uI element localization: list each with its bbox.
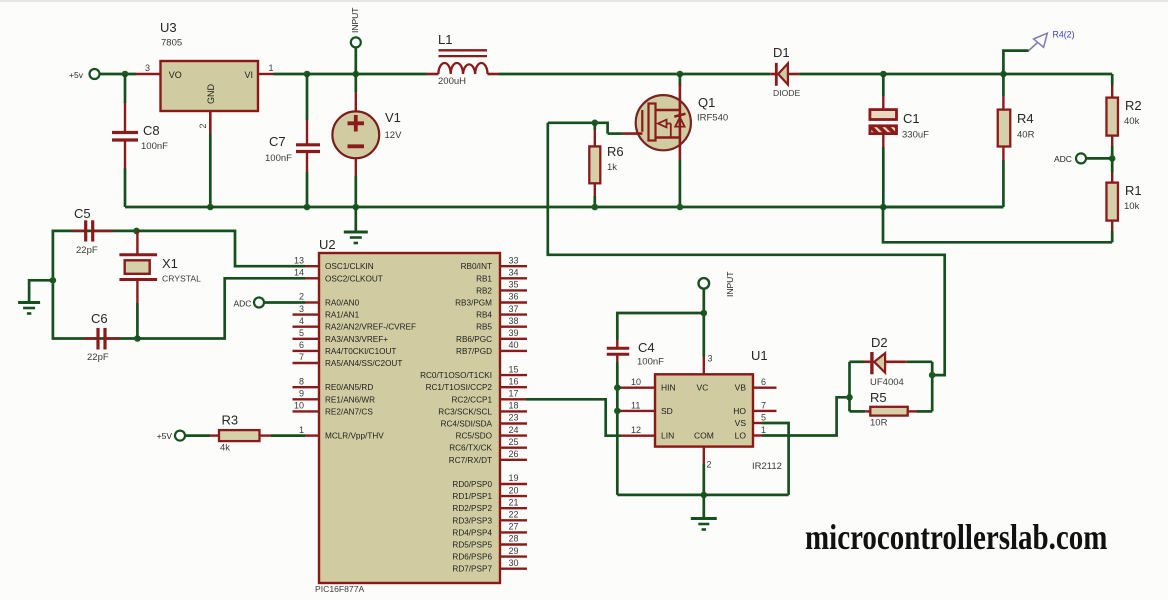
svg-text:COM: COM: [694, 431, 714, 441]
svg-text:1k: 1k: [607, 162, 617, 173]
svg-text:21: 21: [509, 497, 519, 507]
svg-text:U3: U3: [160, 20, 177, 35]
svg-text:RB6/PGC: RB6/PGC: [456, 335, 492, 344]
svg-text:40: 40: [509, 340, 519, 350]
svg-text:14: 14: [294, 268, 304, 278]
svg-text:RB7/PGD: RB7/PGD: [456, 347, 492, 356]
svg-text:PIC16F877A: PIC16F877A: [315, 584, 364, 594]
svg-text:33: 33: [509, 255, 519, 265]
svg-text:15: 15: [509, 364, 519, 374]
svg-text:18: 18: [509, 401, 519, 411]
svg-text:12: 12: [631, 425, 641, 435]
svg-text:+5V: +5V: [157, 431, 173, 441]
svg-text:100nF: 100nF: [141, 141, 168, 152]
svg-text:25: 25: [509, 437, 519, 447]
svg-text:RC3/SCK/SCL: RC3/SCK/SCL: [438, 407, 492, 416]
svg-text:C7: C7: [269, 134, 286, 149]
svg-text:RE0/AN5/RD: RE0/AN5/RD: [325, 383, 373, 392]
svg-text:microcontrollerslab.com: microcontrollerslab.com: [805, 518, 1107, 558]
svg-text:IR2112: IR2112: [752, 461, 782, 472]
svg-text:36: 36: [509, 292, 519, 302]
svg-text:27: 27: [509, 522, 519, 532]
svg-text:12V: 12V: [385, 130, 403, 141]
svg-text:RB1: RB1: [476, 274, 492, 283]
svg-text:9: 9: [299, 389, 304, 399]
svg-text:GND: GND: [206, 84, 216, 105]
svg-text:R3: R3: [222, 413, 239, 428]
svg-text:RC1/T1OSI/CCP2: RC1/T1OSI/CCP2: [426, 383, 493, 392]
svg-text:SD: SD: [661, 406, 673, 416]
svg-text:HO: HO: [733, 406, 746, 416]
svg-text:34: 34: [509, 268, 519, 278]
svg-text:2: 2: [299, 292, 304, 302]
svg-text:RD7/PSP7: RD7/PSP7: [452, 565, 492, 574]
svg-text:C8: C8: [143, 123, 160, 138]
svg-text:C1: C1: [903, 111, 920, 126]
svg-text:RC6/TX/CK: RC6/TX/CK: [449, 444, 492, 453]
svg-text:35: 35: [509, 280, 519, 290]
svg-text:C4: C4: [638, 340, 655, 355]
svg-text:VO: VO: [169, 70, 182, 80]
svg-text:RD2/PSP2: RD2/PSP2: [452, 504, 492, 513]
svg-text:4k: 4k: [220, 443, 230, 454]
svg-text:26: 26: [509, 449, 519, 459]
svg-text:RA1/AN1: RA1/AN1: [325, 311, 360, 320]
svg-text:VS: VS: [735, 418, 747, 428]
svg-text:23: 23: [509, 413, 519, 423]
svg-text:V1: V1: [385, 110, 401, 125]
svg-text:200uH: 200uH: [438, 76, 466, 87]
svg-text:RD3/PSP3: RD3/PSP3: [452, 516, 492, 525]
svg-text:22: 22: [509, 510, 519, 520]
svg-text:L1: L1: [438, 32, 452, 47]
svg-text:ADC: ADC: [234, 299, 252, 309]
svg-text:RA3/AN3/VREF+: RA3/AN3/VREF+: [325, 335, 388, 344]
svg-text:10: 10: [631, 377, 641, 387]
svg-text:U1: U1: [751, 348, 768, 363]
svg-text:VB: VB: [735, 383, 747, 393]
svg-text:LIN: LIN: [661, 431, 674, 441]
svg-text:RE2/AN7/CS: RE2/AN7/CS: [325, 407, 373, 416]
svg-text:8: 8: [299, 376, 304, 386]
svg-text:100nF: 100nF: [265, 153, 292, 164]
svg-text:INPUT: INPUT: [725, 272, 735, 298]
svg-text:5: 5: [761, 412, 766, 422]
svg-text:29: 29: [509, 546, 519, 556]
svg-text:MCLR/Vpp/THV: MCLR/Vpp/THV: [325, 432, 384, 441]
svg-text:5: 5: [299, 328, 304, 338]
svg-text:7: 7: [761, 400, 766, 410]
svg-text:40k: 40k: [1124, 116, 1140, 127]
svg-text:RE1/AN6/WR: RE1/AN6/WR: [325, 395, 375, 404]
svg-text:LO: LO: [735, 431, 747, 441]
svg-text:100nF: 100nF: [637, 357, 664, 368]
svg-text:OSC1/CLKIN: OSC1/CLKIN: [325, 262, 374, 271]
svg-text:VI: VI: [244, 70, 253, 80]
svg-text:RD0/PSP0: RD0/PSP0: [452, 480, 492, 489]
svg-text:2: 2: [707, 460, 712, 470]
svg-text:38: 38: [509, 316, 519, 326]
svg-text:R4: R4: [1017, 111, 1034, 126]
svg-text:X1: X1: [162, 256, 178, 271]
svg-text:22pF: 22pF: [76, 245, 98, 256]
svg-text:3: 3: [708, 354, 713, 364]
svg-text:10: 10: [294, 401, 304, 411]
svg-text:1: 1: [761, 425, 766, 435]
svg-text:37: 37: [509, 304, 519, 314]
svg-text:R1: R1: [1125, 183, 1142, 198]
svg-text:10k: 10k: [1124, 201, 1140, 212]
svg-text:28: 28: [509, 534, 519, 544]
svg-text:C6: C6: [91, 311, 108, 326]
svg-text:330uF: 330uF: [902, 130, 929, 141]
svg-text:11: 11: [631, 400, 640, 410]
svg-text:IRF540: IRF540: [697, 113, 728, 124]
svg-text:20: 20: [509, 485, 519, 495]
svg-text:RC4/SDI/SDA: RC4/SDI/SDA: [441, 420, 493, 429]
svg-text:C5: C5: [74, 206, 91, 221]
svg-text:39: 39: [509, 328, 519, 338]
svg-text:7: 7: [299, 352, 304, 362]
svg-text:40R: 40R: [1017, 130, 1035, 141]
svg-text:7805: 7805: [161, 38, 182, 49]
svg-text:RB4: RB4: [476, 311, 492, 320]
svg-text:DIODE: DIODE: [773, 88, 800, 98]
svg-text:HIN: HIN: [661, 383, 676, 393]
svg-text:RB3/PGM: RB3/PGM: [455, 299, 492, 308]
svg-text:RB5: RB5: [476, 323, 492, 332]
svg-text:D1: D1: [773, 45, 790, 60]
svg-text:RB2: RB2: [476, 286, 492, 295]
svg-text:17: 17: [509, 389, 519, 399]
svg-text:6: 6: [299, 340, 304, 350]
svg-text:R4(2): R4(2): [1053, 30, 1075, 40]
svg-text:4: 4: [299, 316, 304, 326]
svg-text:RD5/PSP5: RD5/PSP5: [452, 541, 492, 550]
svg-text:6: 6: [761, 377, 766, 387]
svg-text:RA0/AN0: RA0/AN0: [325, 299, 360, 308]
svg-text:RC7/RX/DT: RC7/RX/DT: [449, 456, 492, 465]
svg-text:RD1/PSP1: RD1/PSP1: [452, 492, 492, 501]
svg-text:2: 2: [198, 123, 208, 128]
svg-text:RC0/T1OSO/T1CKI: RC0/T1OSO/T1CKI: [420, 371, 492, 380]
svg-text:VC: VC: [697, 383, 709, 393]
svg-text:3: 3: [299, 304, 304, 314]
svg-text:1: 1: [269, 63, 274, 73]
svg-text:30: 30: [509, 558, 519, 568]
svg-text:3: 3: [145, 63, 150, 73]
svg-text:RA5/AN4/SS/C2OUT: RA5/AN4/SS/C2OUT: [325, 359, 402, 368]
svg-text:OSC2/CLKOUT: OSC2/CLKOUT: [325, 274, 383, 283]
svg-text:+5v: +5v: [69, 70, 84, 80]
svg-text:RC5/SDO: RC5/SDO: [456, 432, 492, 441]
svg-text:R5: R5: [870, 390, 887, 405]
svg-text:24: 24: [509, 425, 519, 435]
svg-text:10R: 10R: [870, 418, 888, 429]
svg-text:16: 16: [509, 376, 519, 386]
svg-text:RA4/T0CKI/C1OUT: RA4/T0CKI/C1OUT: [325, 347, 396, 356]
svg-text:19: 19: [509, 473, 519, 483]
svg-text:RA2/AN2/VREF-/CVREF: RA2/AN2/VREF-/CVREF: [325, 323, 416, 332]
svg-text:D2: D2: [871, 335, 888, 350]
svg-text:R6: R6: [607, 144, 624, 159]
svg-text:RD6/PSP6: RD6/PSP6: [452, 553, 492, 562]
svg-text:13: 13: [294, 255, 304, 265]
svg-text:22pF: 22pF: [87, 352, 109, 363]
svg-text:RD4/PSP4: RD4/PSP4: [452, 528, 492, 537]
svg-text:UF4004: UF4004: [870, 377, 904, 388]
svg-text:RB0/INT: RB0/INT: [461, 262, 492, 271]
svg-text:ADC: ADC: [1054, 154, 1072, 164]
svg-text:INPUT: INPUT: [350, 8, 360, 34]
svg-text:R2: R2: [1125, 98, 1142, 113]
svg-text:Q1: Q1: [698, 95, 715, 110]
svg-text:U2: U2: [319, 237, 336, 252]
svg-text:RC2/CCP1: RC2/CCP1: [452, 395, 493, 404]
svg-text:1: 1: [299, 425, 304, 435]
svg-text:CRYSTAL: CRYSTAL: [162, 274, 201, 284]
